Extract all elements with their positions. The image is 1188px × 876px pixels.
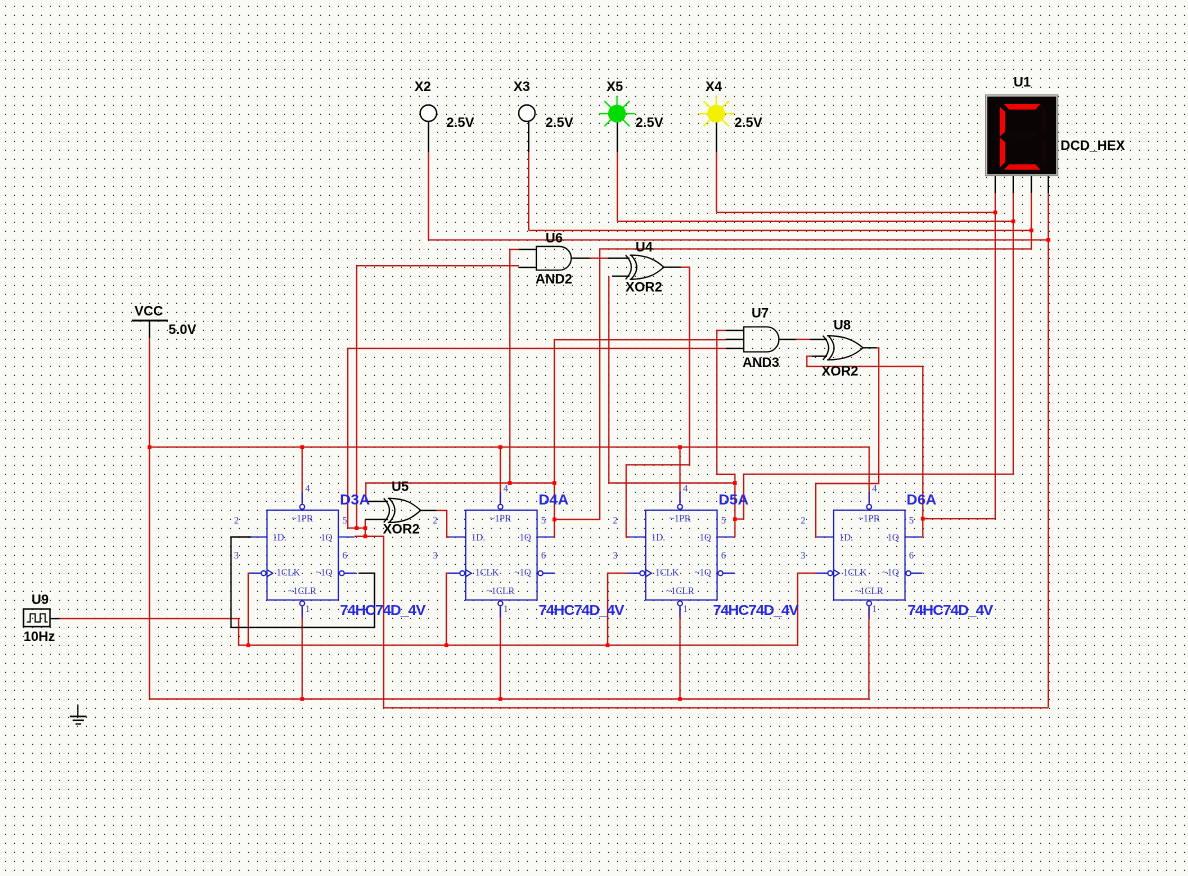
svg-text:74HC74D_4V: 74HC74D_4V bbox=[908, 602, 994, 619]
svg-text:6: 6 bbox=[541, 552, 546, 562]
svg-text:DCD_HEX: DCD_HEX bbox=[1061, 138, 1126, 153]
svg-text:X3: X3 bbox=[514, 79, 531, 94]
svg-text:5: 5 bbox=[541, 517, 546, 527]
svg-text:AND3: AND3 bbox=[743, 355, 780, 370]
svg-text:1D.: 1D. bbox=[839, 534, 853, 544]
svg-text:5: 5 bbox=[721, 517, 726, 527]
svg-text:1Q: 1Q bbox=[887, 534, 899, 544]
svg-text:~1PR: ~1PR bbox=[490, 515, 512, 525]
svg-text:XOR2: XOR2 bbox=[383, 522, 420, 537]
svg-text:U7: U7 bbox=[752, 306, 769, 321]
svg-text:X4: X4 bbox=[706, 79, 723, 94]
svg-text:4: 4 bbox=[872, 485, 877, 495]
svg-text:X2: X2 bbox=[415, 79, 432, 94]
svg-text:1: 1 bbox=[305, 605, 310, 615]
svg-text:D3A: D3A bbox=[340, 492, 370, 509]
svg-text:2.5V: 2.5V bbox=[446, 115, 474, 130]
svg-text:74HC74D_4V: 74HC74D_4V bbox=[713, 602, 799, 619]
svg-text:1CLK: 1CLK bbox=[277, 569, 301, 579]
svg-text:1Q: 1Q bbox=[321, 534, 333, 544]
svg-text:~1Q: ~1Q bbox=[514, 569, 531, 579]
svg-text:~1PR: ~1PR bbox=[291, 515, 313, 525]
svg-text:~1CLR: ~1CLR bbox=[666, 587, 695, 597]
svg-text:~1Q: ~1Q bbox=[316, 569, 333, 579]
svg-text:6: 6 bbox=[721, 552, 726, 562]
svg-text:1D.: 1D. bbox=[651, 534, 665, 544]
svg-text:1: 1 bbox=[683, 605, 688, 615]
svg-text:U8: U8 bbox=[834, 318, 852, 333]
svg-text:6: 6 bbox=[342, 552, 347, 562]
svg-text:2.5V: 2.5V bbox=[546, 115, 574, 130]
svg-text:XOR2: XOR2 bbox=[822, 364, 859, 379]
svg-text:~1PR: ~1PR bbox=[858, 515, 880, 525]
svg-text:3: 3 bbox=[433, 552, 438, 562]
svg-text:2.5V: 2.5V bbox=[636, 115, 664, 130]
svg-text:U6: U6 bbox=[546, 231, 564, 246]
svg-text:X5: X5 bbox=[607, 79, 624, 94]
svg-text:U1: U1 bbox=[1014, 75, 1032, 90]
svg-text:1D.: 1D. bbox=[471, 534, 485, 544]
svg-text:U4: U4 bbox=[636, 240, 654, 255]
svg-text:1CLK: 1CLK bbox=[475, 569, 499, 579]
svg-text:2: 2 bbox=[613, 517, 618, 527]
svg-text:4: 4 bbox=[683, 485, 688, 495]
svg-text:5: 5 bbox=[342, 517, 347, 527]
svg-text:4: 4 bbox=[503, 485, 508, 495]
svg-text:1: 1 bbox=[872, 605, 877, 615]
svg-text:1CLK: 1CLK bbox=[655, 569, 679, 579]
svg-text:D6A: D6A bbox=[907, 492, 937, 509]
svg-text:AND2: AND2 bbox=[536, 272, 573, 287]
svg-text:~1Q: ~1Q bbox=[694, 569, 711, 579]
svg-text:VCC: VCC bbox=[135, 304, 164, 319]
svg-text:74HC74D_4V: 74HC74D_4V bbox=[340, 602, 426, 619]
svg-text:6: 6 bbox=[909, 552, 914, 562]
svg-text:~1CLR: ~1CLR bbox=[855, 587, 884, 597]
svg-text:3: 3 bbox=[613, 552, 618, 562]
svg-text:~1Q: ~1Q bbox=[882, 569, 899, 579]
svg-text:5.0V: 5.0V bbox=[169, 322, 197, 337]
svg-text:5: 5 bbox=[909, 517, 914, 527]
svg-text:2: 2 bbox=[234, 517, 239, 527]
svg-text:3: 3 bbox=[801, 552, 806, 562]
svg-text:2: 2 bbox=[801, 517, 806, 527]
svg-text:1Q: 1Q bbox=[699, 534, 711, 544]
svg-text:~1CLR: ~1CLR bbox=[486, 587, 515, 597]
svg-text:1CLK: 1CLK bbox=[843, 569, 867, 579]
svg-text:D5A: D5A bbox=[719, 492, 749, 509]
svg-text:1Q: 1Q bbox=[519, 534, 531, 544]
svg-text:2.5V: 2.5V bbox=[735, 115, 763, 130]
svg-text:74HC74D_4V: 74HC74D_4V bbox=[539, 602, 625, 619]
svg-text:U5: U5 bbox=[392, 479, 410, 494]
svg-text:~1PR: ~1PR bbox=[669, 515, 691, 525]
svg-text:3: 3 bbox=[234, 552, 239, 562]
svg-text:1D.: 1D. bbox=[273, 534, 287, 544]
svg-text:D4A: D4A bbox=[539, 492, 569, 509]
svg-text:~1CLR: ~1CLR bbox=[288, 587, 317, 597]
svg-text:2: 2 bbox=[433, 517, 438, 527]
svg-text:10Hz: 10Hz bbox=[24, 629, 56, 644]
svg-text:U9: U9 bbox=[32, 592, 49, 607]
svg-text:XOR2: XOR2 bbox=[626, 280, 663, 295]
svg-text:1: 1 bbox=[503, 605, 508, 615]
svg-text:4: 4 bbox=[305, 485, 310, 495]
